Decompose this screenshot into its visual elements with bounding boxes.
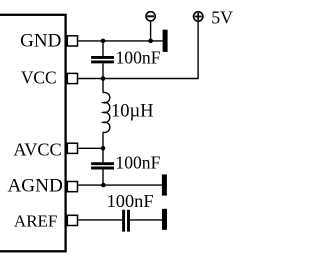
pin square AVCC <box>67 143 77 153</box>
junction GND/C1 <box>101 39 106 44</box>
terminal bar GND <box>163 30 168 52</box>
svg-text:AGND: AGND <box>7 176 63 197</box>
wire GND pin to bar <box>78 40 162 42</box>
pin square AGND <box>67 182 77 192</box>
IC U1 (microcontroller, left, cropped) <box>0 15 66 252</box>
terminal bar AREF <box>162 209 167 230</box>
wire C2 bottom link <box>102 169 104 185</box>
svg-text:AVCC: AVCC <box>13 139 61 159</box>
wire VCC pin to 5V terminal <box>78 22 198 79</box>
wire inductor bottom to AVCC <box>102 132 104 148</box>
svg-text:AREF: AREF <box>14 212 57 231</box>
svg-text:100nF: 100nF <box>115 153 160 173</box>
svg-text:100nF: 100nF <box>116 47 161 67</box>
inductor L1 10uH coil <box>103 92 110 132</box>
svg-text:5V: 5V <box>211 8 233 28</box>
wire AVCC pin <box>78 147 103 149</box>
pin square VCC <box>67 73 77 83</box>
svg-text:VCC: VCC <box>21 68 57 88</box>
pin square AREF <box>67 215 77 225</box>
wire AGND pin to bar <box>78 184 162 186</box>
capacitor C3 100nF plates <box>124 210 129 232</box>
terminal minus (circle) <box>146 12 155 21</box>
terminal plus 5V (circle) <box>194 12 203 21</box>
wire AREF pin to C3 <box>78 219 122 221</box>
junction AGND/C2 <box>101 183 106 188</box>
junction AVCC/C2 <box>101 146 106 151</box>
wire C1 top link <box>102 41 104 56</box>
wire minus terminal lead <box>150 22 152 41</box>
svg-text:100nF: 100nF <box>107 191 154 211</box>
svg-text:GND: GND <box>20 30 61 51</box>
capacitor C2 100nF plates <box>91 164 114 168</box>
capacitor C1 100nF plates <box>91 57 114 62</box>
pin square GND <box>67 36 77 46</box>
junction VCC/C1/L1 <box>101 76 106 81</box>
junction GND/minus terminal <box>148 39 153 44</box>
wire C3 to bar <box>130 219 162 221</box>
terminal bar AGND <box>162 174 167 195</box>
wire VCC to inductor top <box>102 79 104 93</box>
svg-text:10µH: 10µH <box>111 102 154 122</box>
wire C1 bottom link <box>102 63 104 78</box>
wire C2 top link <box>102 148 104 162</box>
